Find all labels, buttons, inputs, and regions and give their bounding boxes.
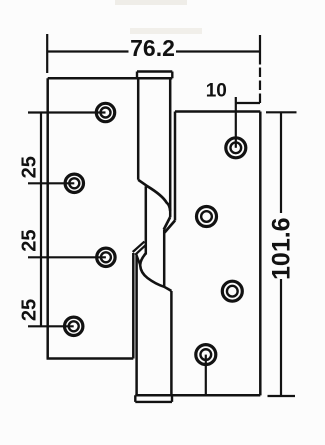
svg-text:25: 25 bbox=[18, 156, 40, 178]
svg-text:101.6: 101.6 bbox=[267, 217, 295, 280]
svg-text:10: 10 bbox=[206, 81, 227, 102]
svg-text:25: 25 bbox=[18, 229, 40, 251]
svg-text:76.2: 76.2 bbox=[130, 35, 175, 61]
svg-text:25: 25 bbox=[18, 299, 40, 321]
